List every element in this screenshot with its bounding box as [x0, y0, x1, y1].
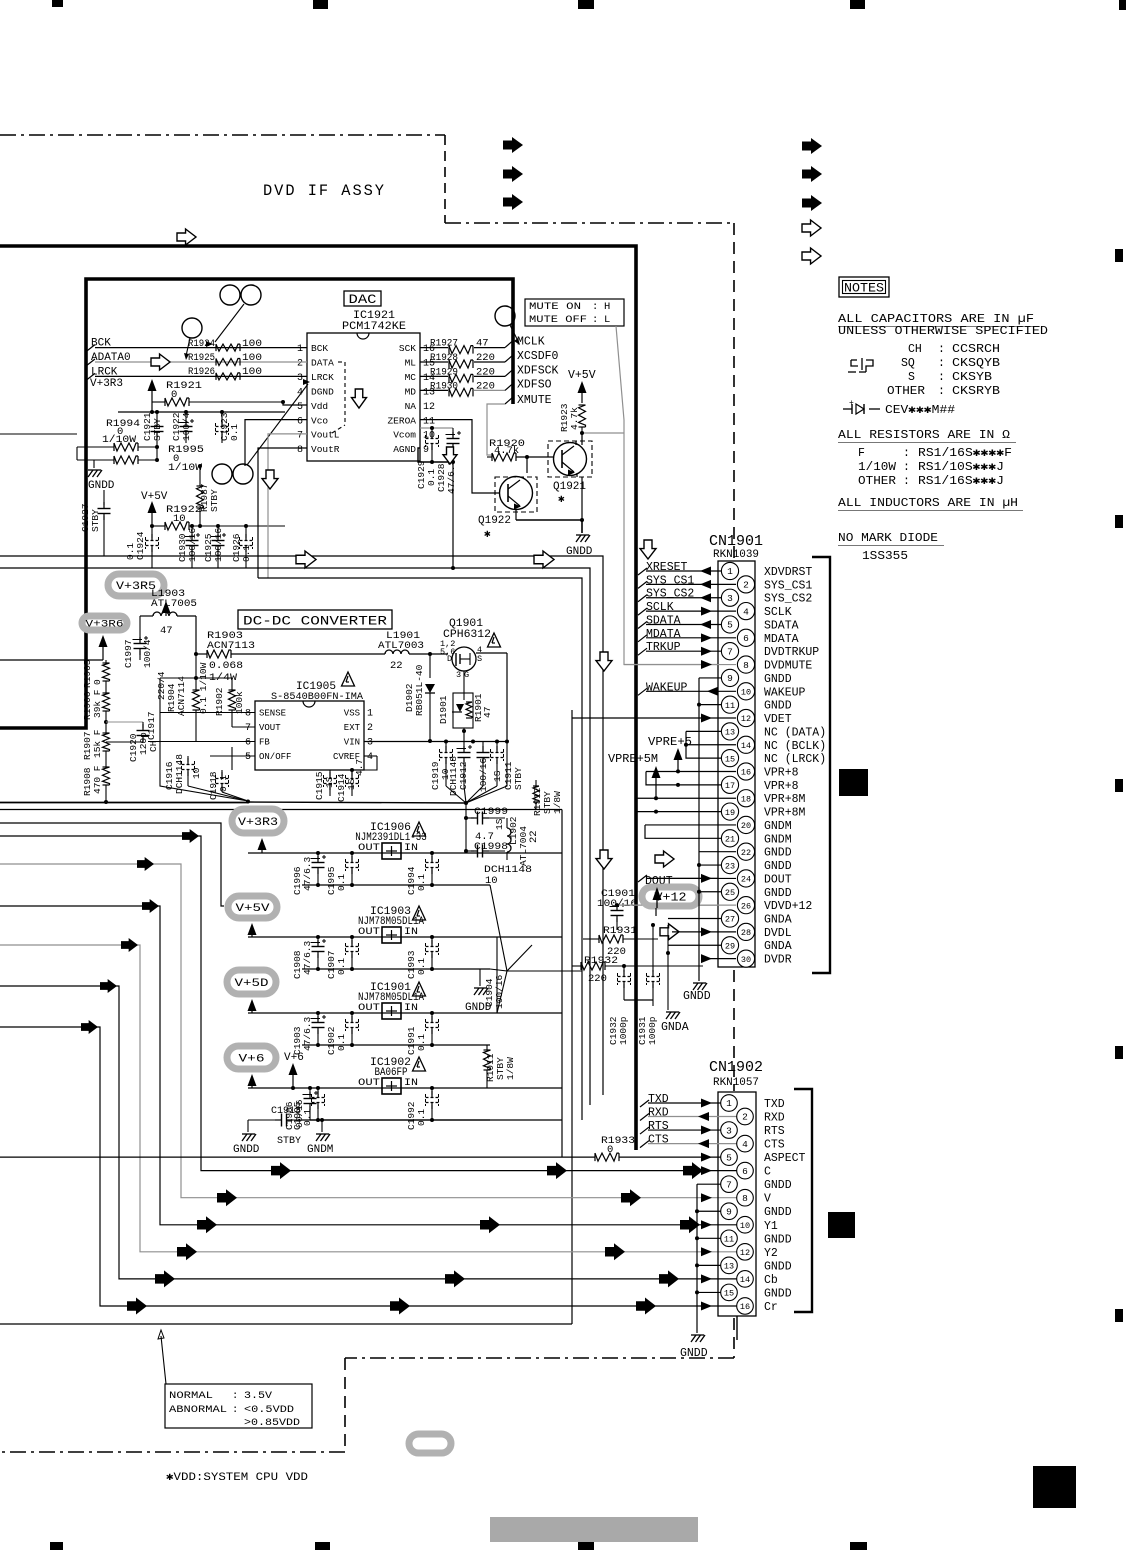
svg-text:26: 26	[741, 901, 751, 911]
svg-text::: :	[903, 447, 910, 460]
svg-text:1/10W: 1/10W	[858, 461, 896, 474]
svg-text:0.1: 0.1	[336, 1034, 347, 1051]
wire GNDA stubs	[668, 919, 721, 946]
resistor R1928 220	[430, 352, 495, 368]
DAC label	[344, 291, 381, 307]
wire VDVD+12 to pin 26	[700, 904, 736, 906]
svg-text:18: 18	[741, 794, 751, 804]
svg-text:GNDA: GNDA	[764, 914, 792, 927]
resistor R1906 39k F	[82, 681, 110, 720]
svg-text:RS1/10S✱✱✱J: RS1/10S✱✱✱J	[918, 461, 1004, 474]
svg-text::: :	[938, 357, 945, 370]
label DOUT	[638, 875, 718, 888]
svg-text:7: 7	[726, 1179, 732, 1190]
signal flow arrows (top right)	[802, 138, 822, 264]
resistor R1930 220	[430, 380, 495, 396]
svg-text::: :	[232, 1390, 238, 1402]
svg-text:1SS355: 1SS355	[862, 550, 908, 563]
svg-text:0.1: 0.1	[241, 545, 252, 562]
connector CN1901 pin labels	[764, 566, 826, 967]
svg-text:11: 11	[724, 1235, 734, 1245]
svg-text:9: 9	[423, 445, 429, 456]
svg-text:100/4: 100/4	[142, 639, 153, 668]
resistor R1923 4.7k	[559, 403, 586, 443]
svg-text::: :	[938, 343, 945, 356]
svg-text:Y1: Y1	[764, 1220, 778, 1233]
svg-text:NO MARK DIODE: NO MARK DIODE	[838, 532, 938, 545]
svg-text:GNDM: GNDM	[764, 820, 792, 833]
svg-text:47/6.3: 47/6.3	[302, 856, 313, 891]
svg-text::: :	[592, 301, 598, 313]
resistor R1908 470 F	[82, 751, 110, 804]
svg-text:4: 4	[742, 1139, 748, 1150]
svg-text:6: 6	[245, 738, 251, 749]
svg-text:9: 9	[727, 673, 733, 684]
svg-text:12: 12	[740, 1248, 750, 1258]
capacitor C1996 47/6.3	[292, 851, 326, 895]
svg-text:XDFSO: XDFSO	[517, 378, 552, 391]
capacitor 100/16	[477, 742, 490, 793]
svg-text:CTS: CTS	[648, 1134, 669, 1147]
capacitor C1914 4.7 1S	[336, 759, 365, 802]
capacitor C1991 0.1	[406, 1011, 439, 1055]
wire rail IC1901	[248, 1012, 562, 1014]
capacitor C1907 0.1	[326, 935, 359, 979]
resistor R1927 47	[430, 338, 489, 354]
svg-text:V+3R5: V+3R5	[116, 581, 156, 593]
wire V+3R3 node to C1999/C1998	[464, 803, 474, 853]
rail V+12	[642, 887, 699, 906]
svg-text:220: 220	[476, 366, 495, 378]
svg-text:Vco: Vco	[311, 415, 328, 426]
svg-text:47/6.3: 47/6.3	[302, 1016, 313, 1051]
resistor R1912 STBY 1/8W	[532, 780, 563, 816]
ground GNDD (CN1901)	[683, 678, 711, 1003]
svg-text:DCH1148: DCH1148	[174, 754, 185, 794]
open arrow on main bus	[177, 229, 196, 245]
svg-text:STBY: STBY	[513, 767, 524, 790]
svg-text:DVDL: DVDL	[764, 927, 792, 940]
connector CN1902 pin labels	[764, 1098, 806, 1314]
svg-text:IN: IN	[404, 843, 418, 854]
svg-text:SCK: SCK	[399, 343, 416, 354]
svg-text:100/16: 100/16	[187, 527, 198, 562]
svg-text:D1901: D1901	[438, 695, 449, 724]
warning mark (IC1905)	[342, 672, 355, 686]
capacitor C1925 100/16	[203, 524, 226, 568]
wire Q1921 collector	[527, 433, 582, 473]
capacitor C1992 0.1	[406, 1086, 439, 1130]
svg-text:SYS_CS1: SYS_CS1	[646, 574, 694, 587]
svg-text:R1931: R1931	[603, 925, 637, 937]
op-amp U1 IC1921 PCM1742KE (DAC IC)	[297, 310, 435, 461]
svg-text:BCK: BCK	[311, 343, 328, 354]
svg-text:23: 23	[725, 861, 735, 871]
inductor L1901 ATL7003	[378, 630, 448, 672]
svg-text:GNDD: GNDD	[764, 1260, 792, 1273]
resistor R1921 0	[152, 380, 283, 406]
svg-text:SDATA: SDATA	[646, 614, 681, 627]
svg-text:100/4: 100/4	[181, 412, 192, 441]
svg-text:GNDD: GNDD	[764, 1206, 792, 1219]
svg-text:0.1: 0.1	[125, 543, 136, 560]
ground GNDD (DAC)	[88, 470, 115, 492]
resistor R1907 15k F	[82, 711, 110, 760]
svg-text:STBY: STBY	[209, 489, 220, 512]
connector CN1901 pins 1-30	[721, 562, 754, 967]
test voltage note box	[165, 1384, 312, 1429]
resistor R1926 100	[188, 366, 262, 380]
svg-text:RS1/16S✱✱✱J: RS1/16S✱✱✱J	[918, 475, 1004, 488]
test point circle (MCLK)	[495, 306, 520, 345]
svg-text:C: C	[764, 1166, 771, 1179]
wire Q1901 drain	[476, 653, 507, 741]
wire main board bus (thick)	[0, 246, 636, 1150]
wire regulator chain right	[562, 710, 572, 1324]
capacitor C1902 0.1	[326, 1011, 359, 1055]
svg-text:CEV✱✱✱M##: CEV✱✱✱M##	[885, 404, 955, 417]
svg-text:12: 12	[423, 402, 435, 413]
wire gnd rail IC1903	[302, 968, 490, 970]
rail V+5V	[228, 896, 277, 918]
svg-text:R1929: R1929	[430, 366, 458, 378]
svg-text:OUT: OUT	[358, 927, 380, 938]
wire C video signal	[0, 829, 737, 1179]
capacitor C1928 47/6.3	[436, 428, 461, 494]
voltage regulator IC1906 NJM2391DL1-33	[355, 822, 427, 859]
wire VoutR	[258, 448, 307, 578]
open right arrow (GNDD bus)	[655, 851, 674, 867]
capacitor C1999 4.7 1S	[471, 806, 508, 843]
resistor R1911 STBY 1/8W	[484, 1045, 517, 1088]
svg-text:Q1921: Q1921	[553, 481, 586, 493]
net pill (unlabeled)	[409, 1434, 451, 1453]
svg-text:0.1: 0.1	[416, 1109, 427, 1126]
svg-text:V+5D: V+5D	[235, 978, 270, 990]
svg-text:ADATA0: ADATA0	[91, 352, 131, 364]
svg-text::: :	[903, 461, 910, 474]
svg-text:V+3R3: V+3R3	[238, 817, 278, 829]
open down arrow (mid bus 1)	[596, 652, 612, 671]
svg-text:CKSYB: CKSYB	[952, 371, 992, 384]
wire VDET	[572, 714, 736, 723]
mute logic table	[525, 299, 624, 326]
svg-text:8: 8	[743, 660, 749, 671]
svg-text:GNDD: GNDD	[764, 673, 792, 686]
svg-text:GNDD: GNDD	[764, 1233, 792, 1246]
svg-text:STBY: STBY	[277, 1136, 301, 1147]
svg-text:8: 8	[245, 709, 251, 720]
net arrow V+3R5	[162, 601, 171, 616]
svg-text:Vdd: Vdd	[311, 401, 328, 412]
svg-text:10: 10	[740, 1221, 750, 1231]
wire VPR+8 pins	[646, 771, 736, 786]
wire fan-in left (V+3R3 node)	[160, 742, 250, 804]
DC-DC CONVERTER label	[238, 610, 392, 629]
wire FB	[148, 741, 255, 743]
svg-text:19: 19	[725, 808, 735, 818]
svg-text:GNDM: GNDM	[764, 833, 792, 846]
DVD IF ASSY boundary (dash-dot)	[0, 134, 445, 136]
svg-text:3: 3	[456, 670, 461, 680]
wire VIN rail	[364, 740, 509, 744]
svg-text:S-8540B00FN-IMA: S-8540B00FN-IMA	[271, 691, 364, 703]
svg-text:R1928: R1928	[430, 352, 458, 364]
bracket CN1901	[812, 557, 830, 973]
wire Cb video signal	[0, 979, 737, 1287]
svg-text:TXD: TXD	[648, 1093, 669, 1106]
svg-text:NC (DATA): NC (DATA)	[764, 726, 826, 739]
svg-text:RTS: RTS	[648, 1120, 669, 1133]
diode D1902 RB051L-40	[404, 654, 435, 743]
svg-text:ALL INDUCTORS ARE IN µH: ALL INDUCTORS ARE IN µH	[838, 497, 1018, 510]
node V+6 (aux)	[284, 1052, 304, 1090]
svg-text:DOUT: DOUT	[764, 873, 792, 886]
wire Vcom	[420, 426, 453, 430]
svg-text:RB051L-40: RB051L-40	[414, 664, 425, 716]
svg-text:XDFSCK: XDFSCK	[517, 364, 559, 377]
resistor R1924 100	[188, 338, 262, 351]
capacitor C1911 STBY 1S	[491, 742, 525, 791]
svg-text:WAKEUP: WAKEUP	[764, 686, 806, 699]
transistor Q1901 CPH6312 (MOSFET)	[440, 618, 491, 693]
capacitor C1929 0.1	[416, 428, 439, 489]
svg-text:6: 6	[297, 416, 303, 427]
wire GNDD stubs CN1901	[697, 678, 736, 894]
svg-text::: :	[903, 475, 910, 488]
svg-text:39k F: 39k F	[92, 689, 103, 718]
capacitor C1913 STBY	[248, 1106, 310, 1147]
svg-text:47: 47	[482, 707, 493, 718]
wire converge node	[490, 885, 582, 1013]
capacitor C1917 220/4	[146, 671, 167, 741]
node VPRE+5	[648, 736, 692, 773]
svg-text:3.5V: 3.5V	[244, 1390, 273, 1402]
svg-text:2: 2	[367, 723, 373, 734]
svg-text:22: 22	[390, 660, 403, 672]
svg-text:8: 8	[742, 1193, 748, 1204]
wire GNDD rail	[77, 443, 159, 468]
capacitor C1993 0.1	[406, 935, 439, 979]
svg-text:V+6: V+6	[284, 1052, 304, 1064]
wire DOUT to pin 24	[646, 874, 736, 883]
wire DVDL arrow	[672, 927, 736, 936]
svg-text:220: 220	[476, 352, 495, 364]
capacitor C1931 1000p	[637, 923, 660, 1045]
wire CN1902 pin16 stub down	[736, 1316, 738, 1340]
svg-text:9: 9	[726, 1206, 732, 1217]
svg-text:CCSRCH: CCSRCH	[952, 343, 1000, 356]
wire TRKUP	[638, 641, 721, 656]
svg-text:3: 3	[726, 1125, 732, 1136]
svg-text:FB: FB	[259, 738, 270, 748]
DAC block outline (thick)	[0, 279, 513, 728]
wire Vco	[245, 420, 307, 466]
svg-text:C1917: C1917	[146, 711, 157, 740]
connector CN1901 RKN1039 outline	[709, 534, 763, 967]
capacitor C1920 120p CH	[106, 722, 159, 762]
wire gnd rail IC1906	[302, 884, 490, 886]
svg-text:10: 10	[741, 687, 751, 697]
wire rail IC1902	[248, 1087, 562, 1089]
svg-text:MCLK: MCLK	[517, 336, 545, 349]
ground GNDM	[307, 1118, 333, 1156]
svg-text:GNDD: GNDD	[88, 480, 115, 492]
svg-text:MUTE ON: MUTE ON	[529, 301, 581, 313]
svg-text:TRKUP: TRKUP	[646, 641, 681, 654]
svg-text:ATL7005: ATL7005	[151, 598, 197, 610]
svg-text:✱: ✱	[558, 494, 565, 506]
capacitor C1921 STBY	[142, 412, 164, 443]
warning mark (IC1903)	[413, 906, 426, 920]
svg-text:1: 1	[367, 709, 373, 720]
rail V+3R6	[82, 616, 127, 631]
wire LRCK input	[86, 366, 307, 380]
svg-text:7: 7	[245, 723, 251, 734]
wire SENSE	[160, 676, 255, 713]
svg-text:GNDA: GNDA	[764, 940, 792, 953]
wire CTS	[640, 1134, 737, 1149]
resistor R1932 220	[572, 955, 703, 985]
svg-text:4: 4	[743, 606, 749, 617]
svg-text:1/8W: 1/8W	[552, 791, 563, 814]
svg-text:MUTE OFF: MUTE OFF	[529, 314, 587, 326]
svg-text::: :	[938, 385, 945, 398]
net arrow V+3R3	[258, 838, 267, 853]
capacitor C1918 0.1	[208, 770, 229, 800]
svg-text::: :	[232, 1404, 238, 1416]
svg-text:G: G	[464, 670, 469, 680]
svg-text:AGND: AGND	[393, 444, 416, 455]
svg-text:15: 15	[725, 754, 735, 764]
svg-text:RXD: RXD	[764, 1112, 785, 1125]
capacitor C1932 1000p	[608, 964, 631, 1045]
leader to test-voltage note	[158, 1330, 166, 1384]
svg-text:2: 2	[742, 1112, 748, 1123]
wire VDVD+12	[615, 903, 718, 907]
svg-text:V+3R6: V+3R6	[86, 619, 124, 631]
svg-text:0.1 1/10W: 0.1 1/10W	[198, 662, 209, 714]
svg-text:ASPECT: ASPECT	[764, 1152, 806, 1165]
open arrow on bus (right)	[534, 551, 554, 568]
voltage regulator IC1902 BA06FP	[358, 1057, 418, 1094]
diode D1901 / resistor R1901 47	[438, 693, 493, 742]
capacitor C1901 100/16	[597, 888, 637, 930]
svg-text:22: 22	[741, 848, 751, 858]
svg-text:RKN1039: RKN1039	[713, 549, 759, 561]
svg-text:ZEROA: ZEROA	[387, 415, 416, 426]
wire SDATA	[638, 614, 721, 629]
svg-text:29: 29	[725, 941, 735, 951]
wire gnd rail IC1902	[302, 1119, 490, 1121]
svg-text:47/6.3: 47/6.3	[302, 940, 313, 975]
svg-text:R1902: R1902	[214, 687, 225, 716]
svg-text:V+5V: V+5V	[236, 903, 271, 915]
capacitor C1919 10	[430, 742, 453, 791]
rail V+6	[227, 1046, 276, 1069]
svg-text:5: 5	[726, 1152, 732, 1163]
svg-text:0.1: 0.1	[416, 958, 427, 975]
svg-text:0: 0	[92, 679, 103, 685]
wire GNDD stubs CN1902	[695, 1184, 721, 1294]
svg-text:6: 6	[742, 1166, 748, 1177]
svg-text:470 F: 470 F	[92, 765, 103, 794]
svg-text:WAKEUP: WAKEUP	[646, 681, 688, 694]
svg-text:IN: IN	[404, 1003, 418, 1014]
resistor R1929 220	[430, 366, 495, 382]
svg-text:OUT: OUT	[358, 1078, 380, 1089]
svg-text:NA: NA	[405, 401, 417, 412]
svg-text:0.1: 0.1	[336, 958, 347, 975]
svg-text:STBY: STBY	[90, 509, 101, 532]
net arrow V+12	[653, 887, 662, 916]
svg-text:0.1: 0.1	[336, 874, 347, 891]
svg-text:XRESET: XRESET	[646, 561, 688, 574]
wire DC-DC input rail	[196, 616, 207, 654]
capacitor C1915 1S	[314, 770, 337, 800]
voltage regulator IC1901 NJM78M05DL1A	[358, 982, 424, 1019]
svg-text:DVDR: DVDR	[764, 954, 792, 967]
net arrow V+6	[248, 1074, 257, 1088]
svg-text:1S: 1S	[494, 818, 505, 830]
svg-text:1S: 1S	[346, 778, 357, 790]
open arrow AGND	[443, 447, 457, 464]
resistor R1925 100	[188, 352, 262, 366]
svg-text:S: S	[477, 654, 482, 664]
wire VoutL	[268, 434, 307, 578]
resistor R1933 0 (ASPECT)	[595, 1135, 635, 1161]
svg-text:13: 13	[725, 728, 735, 738]
wire rail IC1906	[248, 852, 562, 854]
svg-text:STBY: STBY	[152, 418, 163, 441]
svg-text:SQ: SQ	[901, 357, 915, 370]
svg-text:GNDD: GNDD	[764, 700, 792, 713]
svg-text:OUT: OUT	[358, 843, 380, 854]
svg-text:100/16: 100/16	[478, 757, 489, 792]
svg-text:MC: MC	[405, 372, 417, 383]
resistor R1987 STBY	[197, 464, 221, 528]
capacitor C1904 100/16	[484, 937, 505, 1013]
svg-text:GNDD: GNDD	[764, 887, 792, 900]
svg-text:DVDTRKUP: DVDTRKUP	[764, 646, 819, 659]
svg-text:10: 10	[423, 431, 435, 442]
svg-text:GNDD: GNDD	[680, 1347, 708, 1360]
capacitor C1994 0.1	[406, 851, 439, 895]
wire mute emitters to ground	[516, 477, 584, 533]
net arrow V+5V	[248, 923, 257, 937]
svg-text:Cr: Cr	[764, 1301, 778, 1314]
resistor R1995 0 1/10W	[77, 444, 204, 474]
svg-text:ATL7003: ATL7003	[378, 640, 424, 652]
svg-text:SCLK: SCLK	[764, 606, 792, 619]
svg-text:VSS: VSS	[344, 709, 360, 719]
svg-text:OTHER: OTHER	[887, 385, 925, 398]
svg-text:20: 20	[741, 821, 751, 831]
svg-text:VIN: VIN	[344, 738, 360, 748]
wire caps to ground	[624, 1000, 653, 1006]
wire RXD	[640, 1107, 737, 1122]
svg-text:4.7k: 4.7k	[569, 407, 580, 430]
test point circle (ADATA0)	[182, 318, 202, 360]
capacitor C1922 100/4	[171, 412, 194, 443]
svg-text:+: +	[849, 399, 854, 408]
wire cap rail top	[118, 410, 285, 414]
test point circles (BCK)	[206, 285, 261, 347]
resistor R1994 0 1/10W	[77, 418, 157, 451]
svg-text:30: 30	[741, 955, 751, 965]
svg-text:6: 6	[743, 633, 749, 644]
svg-text:2: 2	[297, 359, 303, 370]
